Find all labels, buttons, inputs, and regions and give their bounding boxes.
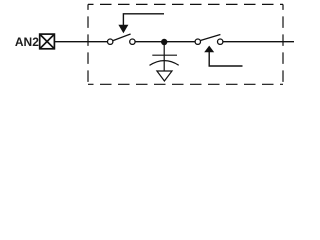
capacitor (hold cap)	[150, 45, 179, 71]
up arrow (SW2 control)	[204, 46, 242, 66]
wire: pin to switch SW1	[55, 41, 107, 43]
svg-text:AN2: AN2	[15, 35, 39, 49]
switch SW1 (sampling switch)	[108, 34, 136, 44]
ground (analog ground arrow)	[157, 71, 172, 81]
dashed module boundary box	[88, 4, 283, 84]
switch SW2	[195, 35, 223, 45]
pin AN2 (box with X)	[40, 34, 55, 49]
junction node	[161, 39, 167, 45]
wire: SW1 to SW2 through junction	[135, 41, 195, 43]
wire: SW2 to output (right edge)	[223, 41, 294, 43]
down arrow (SW1 control)	[118, 14, 164, 33]
